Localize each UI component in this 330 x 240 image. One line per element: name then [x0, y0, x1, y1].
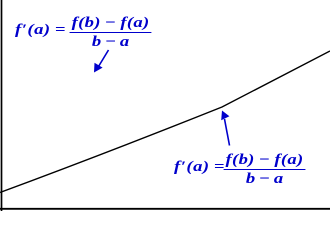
formula top-left: f'(a) = (f(b)-f(a))/(b-a) [15, 16, 151, 50]
arrow from bottom formula (points up-left at kink) [221, 111, 229, 146]
arrow from top formula (points down-left at secant) [94, 50, 109, 73]
y-axis [1, 0, 3, 211]
x-axis [0, 208, 330, 210]
curve f(x) with secant kink [0, 51, 330, 193]
formula bottom-right: f'(a) = (f(b)-f(a))/(b-a) [174, 153, 305, 187]
